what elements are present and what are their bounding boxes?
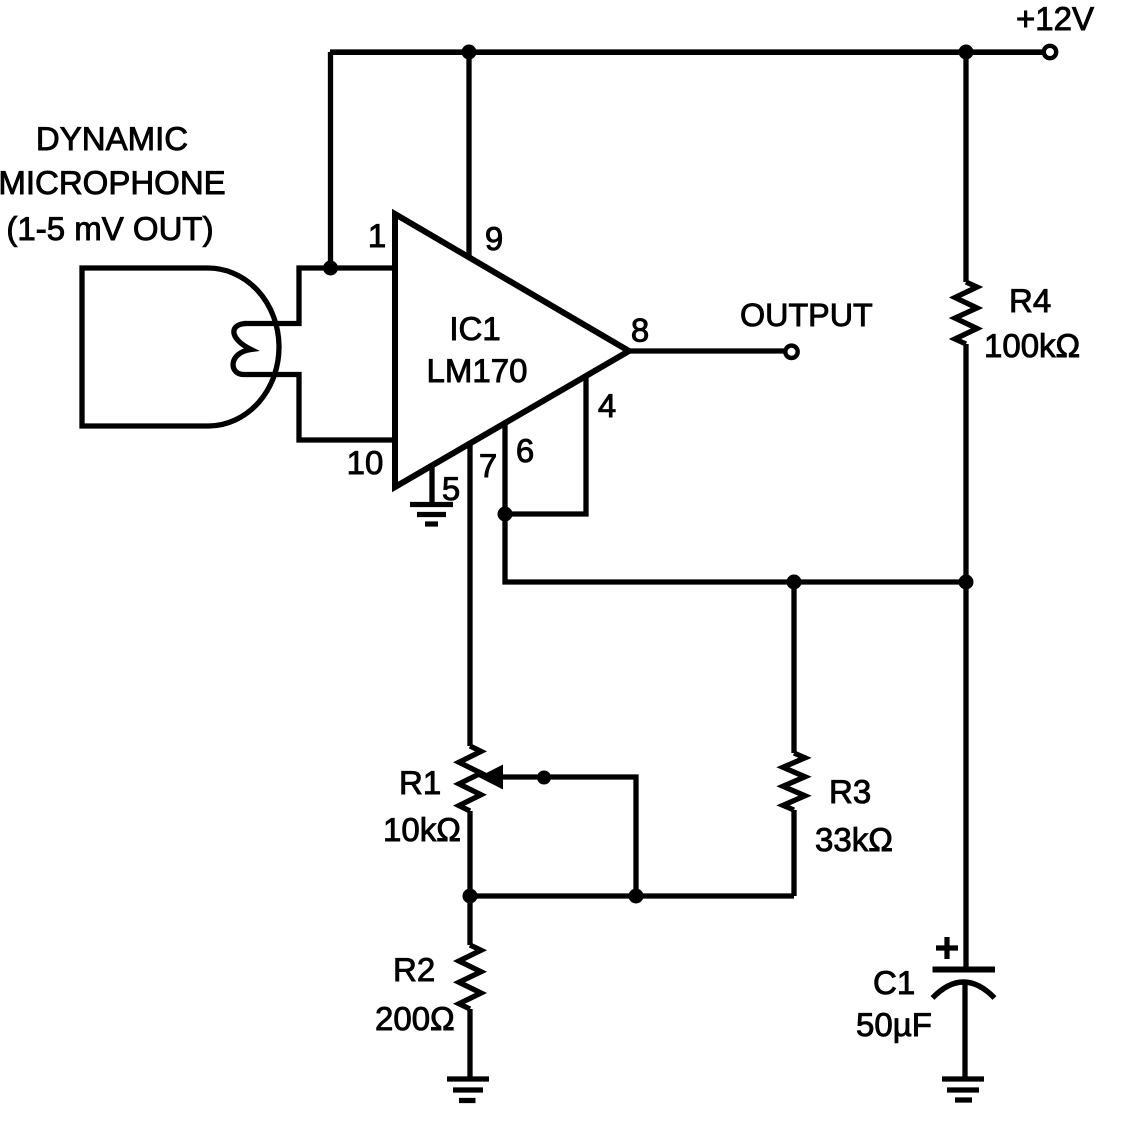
resistor R3 (783, 753, 805, 810)
capacitor C1 plus sign (936, 937, 958, 959)
wire: wiper to bottom junction (500, 777, 636, 896)
svg-text:33kΩ: 33kΩ (815, 821, 893, 858)
svg-text:C1: C1 (873, 964, 915, 1001)
wire: C1 bottom lead (962, 984, 967, 1079)
wire: +12V top supply rail (330, 49, 1044, 55)
potentiometer R1 zigzag (459, 746, 481, 811)
R1 wiper arrowhead (479, 765, 504, 790)
wire: R1 bottom lead (467, 811, 472, 896)
node: junction pin 6 / pin 4 (498, 507, 513, 522)
ground: pin 5 (410, 505, 453, 525)
resistor R4 (955, 282, 977, 344)
wire: pin 7 lead down to R1 (467, 443, 472, 746)
svg-text:50µF: 50µF (856, 1006, 932, 1043)
wire: pin 9 to top rail (466, 52, 471, 257)
node: junction supply drop / pin 1 wire (323, 261, 338, 276)
svg-text:+12V: +12V (1016, 0, 1094, 37)
wire: R4 top lead (963, 52, 968, 282)
wire: feedback from pin6/4 junction down then right to R4/C1 (505, 514, 966, 582)
node: junction feedback / R4-C1 column (959, 575, 974, 590)
svg-text:10: 10 (347, 444, 384, 481)
svg-text:IC1: IC1 (449, 310, 500, 347)
node: junction top rail / pin 9 wire (462, 45, 477, 60)
svg-text:R4: R4 (1009, 282, 1051, 319)
svg-text:200Ω: 200Ω (375, 1000, 455, 1037)
terminal: +12V open circle (1044, 46, 1056, 58)
wire: left supply drop from rail to pin 1 (328, 52, 333, 268)
capacitor C1 curved plate (933, 982, 995, 998)
wire: pin 5 ground stub (429, 466, 434, 504)
wire: R3 bottom lead down to bottom wire (791, 810, 796, 896)
node: dot on wiper wire (537, 771, 551, 785)
svg-text:100kΩ: 100kΩ (984, 327, 1080, 364)
svg-text:R3: R3 (829, 773, 871, 810)
svg-text:9: 9 (485, 220, 503, 257)
svg-text:5: 5 (442, 470, 460, 507)
wire: C1 top lead from feedback junction (963, 582, 968, 967)
wire: R2 bottom lead (467, 1009, 472, 1079)
node: junction feedback / R3 top (787, 575, 802, 590)
svg-text:10kΩ: 10kΩ (383, 811, 461, 848)
wire: R4 bottom lead (963, 344, 968, 582)
wire: pin 4 lead down and left (505, 376, 586, 514)
svg-text:R2: R2 (393, 951, 435, 988)
svg-text:MICROPHONE: MICROPHONE (0, 164, 226, 201)
node: junction bottom wire / wiper drop (629, 889, 644, 904)
svg-text:LM170: LM170 (427, 352, 528, 389)
svg-text:4: 4 (598, 387, 616, 424)
label DYNAMIC MICROPHONE (1-5 mV OUT) (0, 120, 226, 247)
svg-text:8: 8 (631, 312, 649, 349)
capacitor C1 top plate (933, 967, 996, 973)
op-amp IC1 triangle (395, 214, 629, 487)
node: junction R1 / R2 / bottom wire (463, 889, 478, 904)
svg-text:7: 7 (479, 447, 497, 484)
microphone MIC coil bumps (233, 324, 251, 375)
wire: mic lower terminal to op-amp pin 10 (243, 375, 396, 441)
microphone MIC dome arc (207, 268, 279, 426)
svg-text:DYNAMIC: DYNAMIC (36, 120, 188, 157)
wire: R2 top lead (467, 896, 472, 945)
wire: R3 top lead (791, 582, 796, 753)
svg-text:OUTPUT: OUTPUT (740, 297, 873, 333)
wire: bottom feedback wire to R3 (470, 893, 794, 898)
wire: mic upper terminal to op-amp pin 1 (244, 268, 396, 324)
node: junction top rail / R4 (959, 45, 974, 60)
svg-text:1: 1 (368, 217, 386, 254)
resistor R2 (459, 945, 481, 1009)
terminal: OUTPUT open circle (785, 346, 797, 358)
wire: pin 6 lead down (502, 423, 507, 514)
ground: C1 (942, 1079, 984, 1100)
svg-text:(1-5 mV OUT): (1-5 mV OUT) (6, 210, 213, 247)
wire: pin 8 output lead (629, 348, 785, 353)
svg-text:6: 6 (516, 432, 534, 469)
microphone MIC body (82, 268, 209, 426)
ground: R2 (447, 1079, 489, 1101)
svg-text:R1: R1 (399, 764, 441, 801)
